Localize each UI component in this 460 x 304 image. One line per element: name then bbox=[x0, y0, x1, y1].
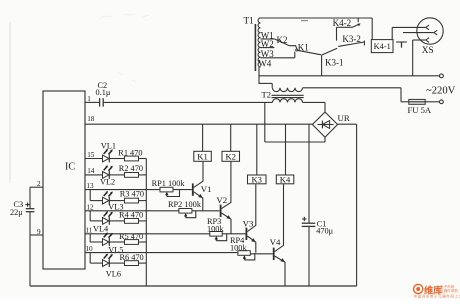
svg-text:V1: V1 bbox=[201, 184, 212, 194]
socket pin top bbox=[426, 25, 429, 30]
svg-text:2: 2 bbox=[37, 180, 41, 188]
wire bus to K2 coil bbox=[230, 124, 232, 151]
LED VL1 bbox=[101, 142, 116, 163]
decorative dash bbox=[301, 20, 308, 22]
LED VL3 bbox=[103, 191, 124, 212]
terminal mains bottom bbox=[440, 100, 444, 104]
wire RP4 out to V4 base bbox=[250, 253, 272, 255]
wire pin15 bbox=[85, 151, 103, 159]
svg-text:100k: 100k bbox=[207, 224, 224, 233]
rectifier UR bridge bbox=[312, 112, 349, 137]
winding tap W2 bbox=[261, 39, 275, 49]
wire bus to K1 coil bbox=[202, 124, 204, 151]
wire LED common bus bbox=[145, 159, 147, 287]
wire pin2 bbox=[30, 180, 43, 188]
wire R4 to LED bus bbox=[139, 220, 147, 222]
resistor R4 470 bbox=[109, 211, 143, 224]
wire branch stub pin10 bbox=[90, 253, 102, 264]
capacitor C2 bbox=[96, 81, 111, 107]
svg-text:V2: V2 bbox=[216, 195, 227, 205]
wire pin1 net to UR bottom bbox=[265, 137, 325, 142]
wire W4 line to mains terminal bbox=[258, 75, 439, 77]
svg-text:R4 470: R4 470 bbox=[119, 211, 143, 220]
svg-text:VL2: VL2 bbox=[100, 178, 115, 187]
svg-text:UR: UR bbox=[338, 113, 350, 123]
svg-text:K1: K1 bbox=[298, 42, 309, 52]
faint scan smudges (decorative) bbox=[100, 14, 149, 82]
wire bottom rail (ground) bbox=[30, 285, 357, 287]
svg-text:14: 14 bbox=[87, 167, 95, 175]
transformer T1 core bbox=[244, 16, 256, 71]
svg-text:RP1 100k: RP1 100k bbox=[152, 179, 186, 188]
wire bus to C1 bbox=[308, 124, 310, 223]
potentiometer RP2 100k bbox=[168, 200, 202, 218]
LED VL6 bbox=[103, 254, 122, 279]
svg-text:0.1μ: 0.1μ bbox=[96, 88, 111, 97]
label W4 bbox=[258, 59, 271, 69]
svg-text:RP2 100k: RP2 100k bbox=[168, 200, 202, 209]
svg-text:元器件采购: 元器件采购 bbox=[440, 288, 458, 293]
resistor R3 470 bbox=[109, 189, 144, 203]
svg-text:R2 470: R2 470 bbox=[119, 164, 143, 173]
svg-text:K3-1: K3-1 bbox=[325, 57, 344, 67]
fuse FU 5A bbox=[408, 99, 432, 115]
wire pin14 bbox=[85, 167, 103, 175]
wire branch stub pin12 bbox=[90, 211, 102, 221]
relay coil K2 bbox=[222, 151, 240, 161]
LED VL5 bbox=[103, 233, 124, 255]
winding tap W1 bbox=[261, 30, 276, 40]
svg-text:R5 470: R5 470 bbox=[119, 232, 143, 241]
switch K1 bbox=[296, 42, 322, 54]
potentiometer RP4 100k bbox=[230, 236, 255, 260]
svg-text:R6 470: R6 470 bbox=[120, 253, 144, 262]
wire pin1 from IC to C2 bbox=[85, 95, 99, 103]
wire RP3 out to V3 base bbox=[222, 233, 246, 235]
wire C3 to bottom rail bbox=[29, 212, 31, 286]
wire C1 to bottom rail bbox=[308, 227, 310, 286]
svg-text:T2: T2 bbox=[262, 90, 272, 100]
transformer T1 winding bbox=[258, 18, 260, 67]
svg-text:K4-1: K4-1 bbox=[374, 42, 391, 51]
wire fuse to mains terminal bbox=[425, 101, 439, 103]
switch K4-2 bbox=[333, 18, 361, 28]
wire pin18 main bus to UR left corner bbox=[85, 115, 313, 124]
svg-text:470μ: 470μ bbox=[316, 227, 333, 236]
wire pin10 to RP4 bbox=[85, 245, 238, 253]
terminal mains top bbox=[440, 74, 444, 78]
potentiometer RP3 100k bbox=[207, 217, 227, 241]
label ~220V bbox=[426, 86, 456, 97]
wire T2 primary right to fuse bbox=[303, 88, 409, 102]
wire T2 secondary right to UR top bbox=[303, 102, 326, 112]
wire R5 to LED bus bbox=[139, 241, 147, 243]
svg-text:15: 15 bbox=[87, 151, 95, 159]
svg-text:W3: W3 bbox=[261, 49, 274, 59]
relay coil K3 bbox=[248, 175, 267, 185]
relay contact K4-1 box bbox=[371, 40, 393, 53]
svg-text:K3: K3 bbox=[251, 175, 262, 185]
svg-text:K2: K2 bbox=[225, 152, 236, 162]
svg-text:W4: W4 bbox=[258, 59, 271, 69]
resistor R6 470 bbox=[109, 253, 144, 266]
svg-text:T1: T1 bbox=[244, 16, 255, 26]
winding tap W3 bbox=[261, 49, 295, 59]
wire T1 winding bottom bbox=[258, 67, 260, 83]
svg-text:VL6: VL6 bbox=[106, 269, 121, 278]
node pin1-drop junction vertical bbox=[264, 102, 266, 142]
faint page edge line (decorative) bbox=[9, 22, 11, 183]
svg-text:R3 470: R3 470 bbox=[120, 189, 144, 198]
svg-text:K3-2: K3-2 bbox=[342, 34, 361, 44]
wire R3 to LED bus bbox=[139, 200, 147, 202]
svg-text:V3: V3 bbox=[243, 219, 254, 229]
capacitor C1 470u bbox=[302, 217, 334, 236]
svg-text:K1: K1 bbox=[197, 152, 208, 162]
svg-text:11: 11 bbox=[85, 226, 92, 234]
capacitor C3 22u bbox=[10, 200, 34, 217]
wire pin2 to C3 bbox=[29, 187, 31, 208]
socket XS circle bbox=[417, 18, 443, 56]
wire XS down to mains line bbox=[412, 40, 414, 76]
resistor R5 470 bbox=[109, 232, 143, 245]
wire branch stub pin11 bbox=[90, 234, 102, 242]
socket pin middle bbox=[403, 30, 437, 35]
wire bus to K3 coil bbox=[256, 124, 258, 175]
relay coil K4 bbox=[276, 175, 294, 185]
wire pin12 to RP2 bbox=[85, 203, 179, 211]
svg-text:10: 10 bbox=[85, 245, 93, 253]
socket pin bottom bbox=[413, 38, 429, 43]
svg-text:VL4: VL4 bbox=[93, 225, 109, 234]
relay coil K1 bbox=[194, 151, 212, 161]
svg-text:12: 12 bbox=[86, 203, 94, 211]
switch K3-2 bbox=[337, 27, 365, 46]
transistor V2 bbox=[216, 161, 231, 234]
svg-text:IC: IC bbox=[65, 162, 75, 173]
wire pin13 to RP1 bbox=[85, 182, 160, 190]
wire right edge drop bbox=[356, 124, 358, 286]
wire R2 to LED bus bbox=[139, 174, 147, 176]
svg-text:~220V: ~220V bbox=[426, 86, 456, 97]
resistor R2 470 bbox=[109, 164, 143, 177]
svg-text:W2: W2 bbox=[261, 39, 274, 49]
wire T1 top to K4-2 bbox=[259, 17, 372, 19]
transistor V4 bbox=[270, 184, 285, 286]
switch K2 bbox=[275, 35, 297, 49]
svg-text:VL1: VL1 bbox=[101, 142, 116, 151]
svg-text:18: 18 bbox=[87, 115, 95, 123]
svg-text:V4: V4 bbox=[270, 237, 281, 247]
transformer T2 primary bbox=[258, 83, 302, 99]
LED VL4 bbox=[93, 211, 113, 233]
svg-text:R1 470: R1 470 bbox=[118, 148, 142, 157]
svg-text:K2: K2 bbox=[277, 35, 288, 45]
transistor V1 bbox=[192, 161, 212, 211]
svg-text:1: 1 bbox=[87, 95, 91, 103]
wire pin1 net from C2 to T2 secondary bbox=[104, 101, 273, 103]
wire pin9 bbox=[30, 228, 43, 236]
potentiometer RP1 100k bbox=[152, 179, 186, 197]
switch K3-1 bbox=[322, 48, 344, 76]
svg-text:K4: K4 bbox=[280, 175, 291, 185]
transformer T2 secondary bbox=[273, 99, 303, 103]
svg-text:9: 9 bbox=[37, 228, 41, 236]
wire RP2 out to V2 base bbox=[192, 210, 220, 212]
wire top to K4-1 bbox=[371, 18, 373, 40]
logo watermark (decorative) bbox=[414, 284, 460, 298]
wire R6 to LED bus bbox=[139, 262, 147, 264]
wire K4-1 right up to socket bbox=[392, 27, 426, 39]
wire pin11 to RP3 bbox=[85, 226, 210, 234]
transformer T2 core bbox=[272, 95, 304, 97]
wire bus to K4 coil bbox=[285, 124, 287, 175]
wire branch stub pin13 bbox=[90, 190, 102, 201]
svg-text:22μ: 22μ bbox=[10, 208, 23, 217]
IC chip (controller) box with label bbox=[43, 91, 85, 269]
wire UR right corner to right edge bbox=[338, 123, 357, 125]
transistor V3 bbox=[243, 184, 256, 253]
resistor R1 470 bbox=[109, 148, 142, 161]
svg-text:FU 5A: FU 5A bbox=[408, 105, 432, 115]
wire R1 to LED bus bbox=[139, 158, 147, 160]
svg-text:13: 13 bbox=[86, 182, 94, 190]
svg-text:100k: 100k bbox=[230, 244, 247, 253]
LED VL2 bbox=[100, 165, 115, 186]
ground-bar near XS bbox=[396, 42, 407, 48]
svg-text:K4-2: K4-2 bbox=[333, 18, 352, 28]
svg-text:XS: XS bbox=[422, 46, 434, 56]
wire RP1 out to V1 base bbox=[173, 189, 192, 191]
svg-text:中国领先电子元器件网上交易平台: 中国领先电子元器件网上交易平台 bbox=[414, 293, 460, 298]
